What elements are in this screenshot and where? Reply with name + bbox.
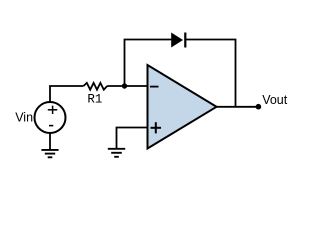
svg-text:Vout: Vout [262,93,288,107]
svg-text:Vin: Vin [15,111,33,125]
svg-text:R1: R1 [87,93,102,107]
